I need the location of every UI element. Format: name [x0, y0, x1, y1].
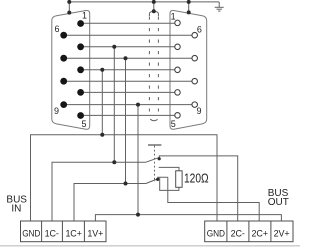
- svg-text:2C+: 2C+: [252, 228, 268, 238]
- svg-text:9: 9: [196, 106, 201, 116]
- svg-text:5: 5: [81, 119, 86, 129]
- svg-text:5: 5: [171, 119, 176, 129]
- svg-text:GND: GND: [207, 228, 226, 238]
- svg-text:GND: GND: [22, 228, 41, 238]
- svg-text:1V+: 1V+: [87, 228, 103, 238]
- svg-text:2V+: 2V+: [274, 228, 290, 238]
- svg-text:1: 1: [82, 11, 87, 21]
- svg-text:1C+: 1C+: [65, 228, 81, 238]
- svg-text:6: 6: [54, 24, 59, 34]
- svg-text:1C-: 1C-: [45, 228, 59, 238]
- svg-text:9: 9: [54, 106, 59, 116]
- svg-text:1: 1: [171, 11, 176, 21]
- svg-text:2C-: 2C-: [231, 228, 245, 238]
- svg-text:6: 6: [197, 24, 202, 34]
- svg-text:120Ω: 120Ω: [184, 171, 209, 186]
- svg-text:IN: IN: [11, 203, 21, 214]
- svg-text:OUT: OUT: [268, 197, 289, 208]
